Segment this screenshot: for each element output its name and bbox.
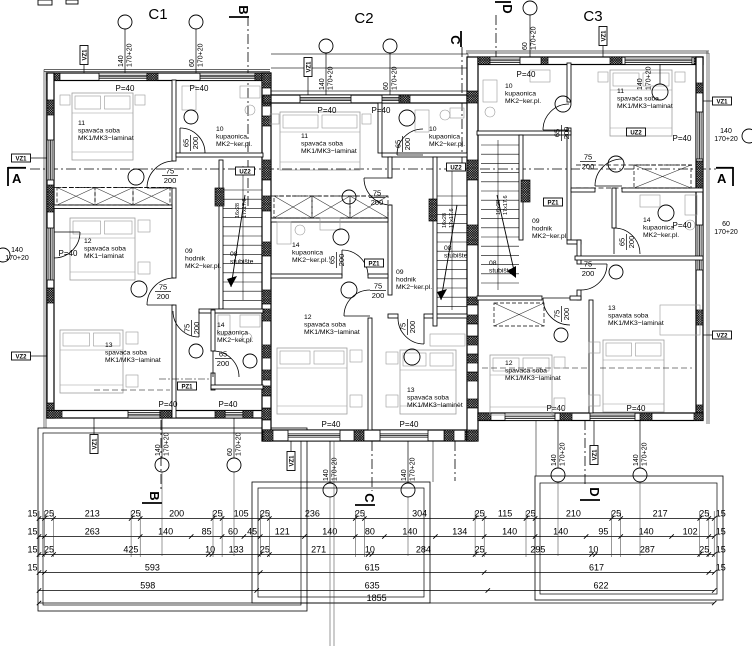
svg-text:MK1/MK3−laminat: MK1/MK3−laminat: [78, 135, 134, 142]
section line C top: [461, 47, 463, 170]
C2 wall bath10 left: [378, 103, 382, 153]
svg-text:65: 65: [553, 129, 562, 137]
window leader circle C2-2: [383, 39, 397, 53]
svg-text:spavaća soba: spavaća soba: [505, 368, 547, 375]
C2 bottom wall: [263, 430, 475, 441]
svg-text:08: 08: [230, 251, 238, 258]
window leader circle C3-2: [652, 84, 668, 100]
svg-text:P=40: P=40: [627, 404, 646, 413]
svg-text:170+20: 170+20: [328, 66, 335, 90]
C1 door room13: [173, 311, 199, 337]
svg-text:140: 140: [502, 527, 517, 537]
svg-text:25: 25: [611, 509, 621, 519]
svg-text:10: 10: [429, 126, 437, 133]
svg-text:170+20: 170+20: [198, 43, 205, 67]
svg-text:spavaća soba: spavaća soba: [407, 395, 449, 402]
svg-text:P=40: P=40: [116, 84, 135, 93]
C3 door room12: [543, 298, 570, 325]
UZ2 box C2: [447, 163, 466, 171]
C2 wall hall left: [388, 157, 392, 178]
svg-text:200: 200: [582, 162, 595, 171]
svg-text:spavaća soba: spavaća soba: [617, 96, 659, 103]
C3 wall mid vertical: [567, 135, 571, 240]
svg-text:622: 622: [593, 581, 608, 591]
C2-C3 shared wall: [467, 57, 478, 441]
C3 door room11: [595, 159, 622, 186]
svg-text:140: 140: [637, 78, 644, 90]
svg-text:65: 65: [328, 256, 337, 264]
svg-text:hodnik: hodnik: [532, 226, 553, 233]
C1 door circle bath10: [184, 110, 198, 124]
C3 bed room11: [610, 70, 672, 136]
C3 wall below band: [571, 188, 595, 192]
svg-text:287: 287: [640, 545, 655, 555]
C2 door circle room11b: [342, 190, 356, 204]
C2 wall bath10 bottom: [382, 153, 467, 157]
C2 bottom wall window 2: [380, 430, 428, 441]
svg-text:102: 102: [683, 527, 698, 537]
C3 bath14 fixtures: [640, 195, 660, 207]
svg-text:spavaća soba: spavaća soba: [304, 322, 346, 329]
C2 bath10 fixtures: [415, 110, 429, 132]
svg-text:45: 45: [247, 527, 257, 537]
VZ1 box top C2: [304, 58, 312, 77]
C2 wall bath14 bottom: [271, 274, 342, 278]
C3 wardrobe X room12: [494, 303, 544, 326]
left leader circle: [0, 248, 10, 262]
C2 top wall hatch blocks: [263, 95, 271, 103]
C2 door circle bath14: [333, 229, 349, 245]
VZ1 box bottom C1: [90, 435, 98, 454]
svg-text:15: 15: [716, 563, 726, 573]
VZ1 box bottom C3: [590, 446, 598, 465]
C3 bed room13: [603, 340, 664, 412]
svg-text:200: 200: [408, 321, 417, 334]
svg-text:593: 593: [145, 563, 160, 573]
svg-text:295: 295: [530, 545, 545, 555]
svg-text:10: 10: [216, 126, 224, 133]
svg-text:140: 140: [11, 247, 23, 254]
section line C bottom: [371, 441, 373, 491]
svg-text:134: 134: [452, 527, 467, 537]
C1 lintel dash line: [159, 378, 211, 380]
svg-text:MK2−ker.pl.: MK2−ker.pl.: [396, 284, 432, 291]
VZ1 box top C3: [599, 27, 607, 46]
C2 top wall window 1: [300, 95, 351, 103]
window leader circle C3-1: [523, 1, 537, 15]
C3 door circle bath14: [658, 205, 674, 221]
svg-text:140: 140: [402, 527, 417, 537]
svg-text:kupaonica: kupaonica: [292, 250, 323, 257]
svg-text:200: 200: [372, 291, 385, 300]
svg-text:10: 10: [588, 545, 598, 555]
svg-text:spavaća soba: spavaća soba: [105, 350, 147, 357]
svg-text:P=40: P=40: [190, 84, 209, 93]
C3 nightstands room13: [589, 342, 600, 353]
svg-text:14: 14: [643, 217, 651, 224]
svg-text:A: A: [12, 171, 22, 186]
C3 wall stair right: [519, 135, 523, 240]
svg-text:10: 10: [205, 545, 215, 555]
svg-text:C2: C2: [354, 10, 373, 27]
svg-text:spavaća soba: spavaća soba: [78, 128, 120, 135]
svg-text:VZ2: VZ2: [716, 333, 728, 339]
svg-text:VZ1: VZ1: [15, 156, 27, 162]
C3 right wall window VZ1: [696, 112, 703, 159]
section line C crank segment: [454, 441, 456, 481]
svg-text:284: 284: [416, 545, 431, 555]
C2 bath14 fixtures: [277, 222, 291, 244]
C1 door circle room12: [131, 281, 147, 297]
svg-text:stubište: stubište: [444, 253, 468, 260]
svg-text:16x28: 16x28: [442, 213, 448, 228]
svg-text:D: D: [587, 487, 602, 496]
svg-text:200: 200: [562, 308, 571, 321]
C3 door circle room13: [609, 265, 623, 279]
C2 wardrobe room13: [430, 334, 465, 346]
C2 stair pier hatch: [429, 199, 437, 221]
right leader circle: [742, 129, 752, 143]
svg-text:11: 11: [301, 133, 308, 140]
C2 door bath14: [342, 250, 368, 276]
svg-text:12: 12: [84, 238, 92, 245]
C3 wall bath10 right: [567, 63, 571, 102]
svg-text:170+20: 170+20: [410, 457, 417, 481]
svg-text:60: 60: [722, 221, 730, 228]
svg-text:10: 10: [505, 83, 513, 90]
svg-text:140: 140: [401, 469, 408, 481]
C2 door bath10: [397, 129, 423, 155]
porch leader circle C2-1: [323, 483, 337, 497]
svg-text:210: 210: [566, 509, 581, 519]
C1 wardrobe X boxes: [57, 188, 95, 206]
svg-text:17x17.6: 17x17.6: [242, 198, 248, 218]
terrace slab below C3 inner: [540, 483, 717, 594]
PZ1 box C3: [544, 198, 563, 206]
svg-text:hodnik: hodnik: [185, 256, 206, 263]
PZ1 box C2: [365, 259, 384, 267]
svg-text:200: 200: [582, 269, 595, 278]
VZ1 box right: [713, 97, 732, 105]
C1 bed room11: [72, 93, 133, 160]
C3 top wall: [478, 57, 703, 65]
svg-text:12: 12: [505, 360, 513, 367]
svg-text:133: 133: [229, 545, 244, 555]
svg-text:MK2−ker.pl.: MK2−ker.pl.: [532, 233, 568, 240]
C2 wall room11 bottom: [271, 218, 388, 222]
svg-text:170+20: 170+20: [642, 442, 649, 466]
svg-text:263: 263: [85, 527, 100, 537]
C2 bed room11: [280, 112, 360, 170]
C1 wall hall/room13: [172, 305, 176, 418]
C1 nightstands room11: [60, 95, 70, 105]
svg-text:121: 121: [275, 527, 290, 537]
svg-text:B: B: [236, 5, 251, 14]
C3 stair pier hatch: [521, 180, 530, 202]
svg-text:75: 75: [159, 283, 167, 292]
svg-text:170+20: 170+20: [164, 432, 171, 456]
svg-text:65: 65: [219, 350, 227, 359]
dimension extension lines: [38, 511, 40, 557]
porch leader circle C1-2: [227, 458, 241, 472]
svg-text:hodnik: hodnik: [396, 277, 417, 284]
C1-C2 shared wall hatch blocks: [262, 73, 271, 88]
roof eave line above C3: [466, 50, 709, 52]
svg-text:170+20: 170+20: [714, 229, 738, 236]
C3 bottom wall window 2: [590, 413, 635, 421]
svg-text:13: 13: [105, 342, 113, 349]
svg-text:PZ1: PZ1: [368, 261, 380, 267]
svg-text:VZ1: VZ1: [716, 99, 728, 105]
svg-text:75: 75: [183, 324, 192, 332]
svg-text:17x17.6: 17x17.6: [503, 195, 509, 215]
C2 bed room12: [277, 348, 347, 414]
svg-text:MK2−ker.pl.: MK2−ker.pl.: [217, 337, 253, 344]
tiny corner box 2: [66, 0, 78, 4]
VZ1 box bottom C2: [287, 452, 295, 471]
C1 wall room12/hall: [172, 188, 176, 278]
svg-text:140: 140: [553, 527, 568, 537]
C3 attic dash room12: [482, 367, 588, 369]
C3 wall bath14 left: [612, 188, 616, 228]
C3 door circle room12: [554, 328, 568, 342]
svg-text:25: 25: [526, 509, 536, 519]
svg-text:VZ1: VZ1: [82, 49, 88, 61]
C3 door circle room11: [608, 156, 624, 172]
svg-text:75: 75: [374, 282, 382, 291]
svg-text:16x28: 16x28: [496, 200, 502, 215]
section line D bottom: [584, 420, 586, 486]
C1 top wall window 2: [200, 73, 255, 81]
svg-text:MK1/MK3−laminat: MK1/MK3−laminat: [304, 329, 360, 336]
terrace slab below C1 inner: [43, 433, 301, 605]
svg-text:140: 140: [118, 55, 125, 67]
svg-text:spavaća soba: spavaća soba: [301, 141, 343, 148]
svg-text:14: 14: [292, 242, 300, 249]
svg-text:MK1/MK3−laminėt: MK1/MK3−laminėt: [407, 402, 463, 409]
C2 door circle bath10: [399, 110, 415, 126]
svg-text:kupaonica: kupaonica: [216, 134, 247, 141]
C1 wall bath14 bottom: [211, 385, 263, 389]
svg-text:140: 140: [633, 454, 640, 466]
C3 right wall hatch blocks: [696, 83, 703, 93]
C2 door room12: [344, 290, 370, 316]
svg-text:170+20: 170+20: [392, 66, 399, 90]
svg-text:spavata soba: spavata soba: [608, 313, 649, 320]
VZ1 box left: [12, 154, 31, 162]
svg-text:25: 25: [475, 545, 485, 555]
C3 right wall: [696, 57, 703, 420]
C1 top wall hatch blocks: [47, 73, 60, 81]
svg-text:25: 25: [44, 509, 54, 519]
svg-text:15: 15: [716, 527, 726, 537]
terrace slab below C2 inner: [258, 488, 424, 597]
svg-text:spavaća soba: spavaća soba: [84, 246, 126, 253]
svg-text:1855: 1855: [367, 593, 387, 603]
C2 door room11: [364, 178, 391, 205]
VZ2 box right: [713, 331, 732, 339]
C3 door bath10: [543, 104, 569, 130]
C3 attic dash room13: [600, 367, 692, 369]
porch connector C3 left: [535, 420, 537, 476]
svg-text:MK1/MK3−laminat: MK1/MK3−laminat: [105, 357, 161, 364]
C3 door room13: [581, 264, 607, 290]
svg-text:08: 08: [444, 245, 452, 252]
svg-text:75: 75: [584, 153, 592, 162]
svg-text:09: 09: [396, 269, 404, 276]
C2-C3 shared wall hatch blocks: [467, 91, 478, 103]
svg-text:200: 200: [337, 254, 346, 267]
svg-text:615: 615: [365, 563, 380, 573]
svg-text:P=40: P=40: [372, 106, 391, 115]
svg-text:236: 236: [305, 509, 320, 519]
svg-text:P=40: P=40: [673, 134, 692, 143]
PZ1 box C1: [178, 382, 197, 390]
svg-text:140: 140: [158, 527, 173, 537]
svg-text:200: 200: [169, 509, 184, 519]
svg-text:95: 95: [598, 527, 608, 537]
svg-text:25: 25: [699, 545, 709, 555]
terrace slab below C1 outer: [38, 428, 307, 611]
svg-text:15: 15: [27, 545, 37, 555]
svg-text:80: 80: [365, 527, 375, 537]
C1 bath14 fixtures: [240, 315, 260, 327]
svg-text:11: 11: [617, 88, 624, 95]
svg-text:MK1/MK3−laminat: MK1/MK3−laminat: [617, 103, 673, 110]
svg-text:200: 200: [192, 322, 201, 335]
svg-text:MK1/MK3−laminat: MK1/MK3−laminat: [301, 148, 357, 155]
tiny corner box: [38, 0, 52, 5]
canopy outline above C2: [271, 53, 468, 55]
svg-text:C1: C1: [148, 6, 167, 23]
C1 stair pier hatch: [215, 188, 224, 206]
svg-text:25: 25: [260, 509, 270, 519]
svg-text:VZ2: VZ2: [15, 354, 27, 360]
svg-text:stubište: stubište: [489, 268, 513, 275]
C1 wall stair left: [219, 160, 223, 309]
C3 bottom wall: [478, 413, 703, 421]
svg-text:C: C: [362, 493, 377, 503]
svg-text:25: 25: [260, 545, 270, 555]
svg-text:UZ2: UZ2: [450, 165, 462, 171]
svg-text:140: 140: [720, 128, 732, 135]
C2 nightstands room12: [350, 350, 362, 362]
C2 door circle room13: [404, 349, 420, 365]
svg-text:170+20: 170+20: [127, 43, 134, 67]
svg-text:635: 635: [365, 581, 380, 591]
svg-text:MK2−ker.pl.: MK2−ker.pl.: [292, 257, 328, 264]
C3 nightstands room12: [554, 357, 565, 368]
terrace slab below C2 outer: [252, 482, 430, 603]
C1 door circle bath14: [243, 354, 257, 368]
C1 wall room11/hall: [172, 80, 176, 161]
svg-text:598: 598: [140, 581, 155, 591]
section line B bottom: [160, 420, 162, 490]
C3 bottom wall window 1: [505, 413, 555, 421]
svg-text:65: 65: [182, 139, 191, 147]
svg-text:14: 14: [217, 322, 225, 329]
svg-text:VZ1: VZ1: [306, 61, 312, 73]
C2 bottom wall hatch blocks: [263, 430, 273, 441]
svg-text:P=40: P=40: [547, 404, 566, 413]
svg-text:75: 75: [373, 189, 381, 198]
C1-C2 shared wall: [262, 73, 271, 441]
svg-text:13: 13: [608, 305, 616, 312]
svg-text:140: 140: [323, 469, 330, 481]
C3 nightstands room11: [598, 72, 608, 82]
C1 wall bath10 bottom: [176, 153, 263, 157]
svg-text:D: D: [500, 4, 515, 13]
svg-text:65: 65: [394, 140, 403, 148]
svg-text:kupaonica: kupaonica: [643, 225, 674, 232]
C1 left wall door window: [47, 228, 54, 280]
C1 cut band dashes: [54, 187, 172, 189]
C1 door bath14: [213, 351, 239, 377]
C3 bed room12: [490, 355, 552, 415]
svg-text:140: 140: [639, 527, 654, 537]
window leader circle C1-2: [189, 15, 203, 29]
svg-text:P=40: P=40: [159, 400, 178, 409]
VZ2 box left: [12, 352, 31, 360]
svg-text:304: 304: [412, 509, 427, 519]
svg-text:MK1/MK3−laminat: MK1/MK3−laminat: [505, 375, 561, 382]
svg-text:200: 200: [217, 359, 230, 368]
C3 wardrobe X boxes: [634, 165, 691, 188]
C1 bath10 fixtures: [240, 86, 260, 98]
section line D top: [495, 15, 497, 57]
svg-text:P=40: P=40: [318, 106, 337, 115]
svg-text:75: 75: [584, 260, 592, 269]
svg-text:kupaonica: kupaonica: [429, 134, 460, 141]
C3 top wall window 1: [484, 57, 520, 65]
C3 top wall window 2: [625, 57, 692, 65]
svg-text:75: 75: [553, 310, 562, 318]
UZ2 box C1: [236, 167, 255, 175]
svg-text:25: 25: [355, 509, 365, 519]
svg-text:60: 60: [227, 448, 234, 456]
C2 door circle room12: [341, 282, 357, 298]
C1 attic dash room13: [94, 389, 170, 391]
svg-text:65: 65: [618, 238, 627, 246]
svg-text:140: 140: [155, 444, 162, 456]
svg-text:60: 60: [383, 82, 390, 90]
svg-text:140: 140: [551, 454, 558, 466]
terrace slab below C3 outer: [535, 476, 723, 600]
svg-text:kupaonica: kupaonica: [217, 330, 248, 337]
svg-text:200: 200: [157, 292, 170, 301]
C3 wardrobe room13: [660, 305, 700, 335]
C1 bottom wall window 1: [128, 411, 160, 419]
C2 wall room12 right: [368, 318, 372, 430]
svg-text:170+20: 170+20: [332, 457, 339, 481]
C2 top wall: [271, 95, 467, 103]
roof eave line left of C1: [43, 70, 45, 429]
svg-text:60: 60: [522, 42, 529, 50]
svg-text:A: A: [717, 171, 727, 186]
C1 stairs: [223, 189, 262, 191]
porch connector C2 right: [432, 441, 434, 482]
svg-text:271: 271: [311, 545, 326, 555]
svg-text:stubište: stubište: [230, 259, 254, 266]
svg-text:15: 15: [27, 527, 37, 537]
C1 bottom wall hatch blocks: [47, 411, 62, 419]
svg-text:200: 200: [403, 138, 412, 151]
svg-text:170+20: 170+20: [236, 432, 243, 456]
svg-text:25: 25: [44, 545, 54, 555]
svg-text:MK2−ker.pl.: MK2−ker.pl.: [429, 141, 465, 148]
svg-text:85: 85: [202, 527, 212, 537]
C1 bottom wall: [47, 411, 270, 419]
